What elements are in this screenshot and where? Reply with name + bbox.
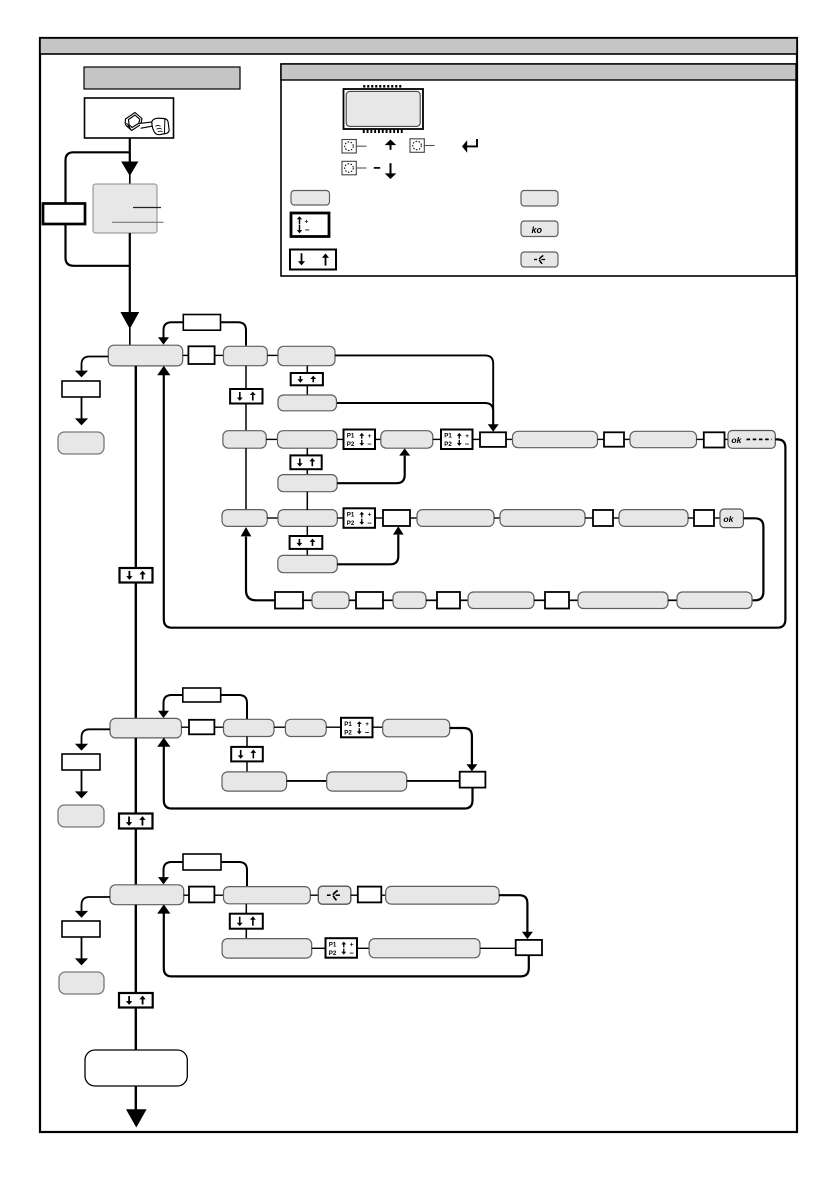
wire r4 7-8	[569, 599, 578, 601]
hand pressing key icon	[125, 113, 169, 135]
wire G6-P1P2b	[433, 438, 441, 440]
wire G2-reset s3	[310, 894, 318, 896]
gray box G2 s3	[224, 887, 311, 904]
white box Wb s2	[460, 772, 486, 788]
reset box s3	[318, 886, 351, 904]
wire r4 3-4	[383, 599, 393, 601]
wire GE-W7	[688, 517, 694, 519]
wire r4 2-3	[349, 599, 356, 601]
wire Wa-G2 s3	[214, 894, 223, 896]
s3 left arrowhead 1	[75, 911, 88, 918]
s2 left arrowhead 1	[75, 744, 88, 751]
svg-text:P2: P2	[347, 441, 355, 448]
gray box G2 s2	[224, 719, 275, 736]
wire G5-P1P2a	[337, 438, 344, 440]
row4 white 2	[356, 592, 383, 609]
svg-text:P2: P2	[344, 729, 352, 736]
column G4 to GA	[245, 448, 247, 510]
legend button right	[410, 139, 424, 153]
column to G2b s3	[245, 929, 247, 939]
row3 gray GB	[278, 510, 337, 527]
row4 white 1	[275, 592, 303, 609]
wire P1P2-G4 s2	[373, 726, 383, 728]
legend key gray left	[291, 191, 330, 206]
legend enter arrow	[467, 139, 478, 146]
state display box	[93, 184, 157, 233]
row4 white 3	[437, 592, 460, 609]
legend header bar	[281, 64, 796, 80]
svg-text:P1: P1	[347, 512, 355, 519]
wire GB-P1P2c	[337, 517, 343, 519]
column G2 s2 down	[246, 737, 248, 748]
arrowhead into state box	[121, 162, 138, 177]
legend ko button	[521, 221, 558, 237]
label box W1	[183, 315, 220, 331]
wire W2-G2	[215, 354, 224, 356]
s1 left wire from M1	[82, 357, 109, 372]
column G5 down	[306, 448, 308, 455]
svg-text:ok: ok	[731, 435, 742, 445]
wire OK2 down to row4	[743, 518, 763, 600]
svg-text:ko: ko	[532, 225, 543, 235]
gray box G2	[224, 346, 268, 365]
s1 left white box	[62, 381, 100, 397]
wire W5-GC	[410, 517, 417, 519]
trunk T1 down	[135, 583, 137, 719]
svg-text:P2: P2	[444, 441, 452, 448]
svg-text:P1: P1	[329, 941, 337, 948]
svg-text:−: −	[349, 948, 354, 957]
s2 left white box	[62, 754, 100, 770]
wire M1-W2	[183, 354, 189, 356]
ok box row2	[728, 431, 775, 449]
wire GC-GD	[494, 517, 500, 519]
wire Wc-G3 s3	[381, 894, 385, 896]
label box W3s	[183, 854, 221, 870]
trunk M3 down segment	[135, 905, 137, 994]
wire r4 5-6	[460, 599, 468, 601]
gray box Gb s3	[369, 939, 480, 958]
row3 gray GE	[619, 510, 688, 527]
s3 left white box	[62, 921, 100, 937]
arrowhead into M3 bottom	[157, 904, 170, 913]
state box line 2	[112, 221, 164, 223]
wire P1P2c-W5	[375, 517, 383, 519]
key press box	[85, 98, 174, 138]
arrowhead into Wd s3	[522, 932, 533, 939]
column GB down	[306, 526, 308, 536]
trunk T2 down	[135, 829, 137, 886]
row4 gray 5	[677, 592, 752, 609]
wire G2b-P1P2 s3	[312, 947, 326, 949]
downup box s3	[230, 914, 263, 929]
wire Gb-Wb s2	[407, 780, 460, 782]
white box Wa s3	[189, 887, 214, 903]
svg-text:−: −	[365, 728, 370, 737]
wire GA-GB	[267, 517, 278, 519]
gray box Gb s2	[327, 772, 407, 791]
gray box GBb	[278, 555, 338, 572]
svg-text:+: +	[305, 218, 309, 225]
wire G5b to G6 bottom	[337, 456, 405, 483]
wire Gb-Wd s3	[480, 947, 516, 949]
wire r4 6-7	[534, 599, 545, 601]
column to Ga s2	[246, 761, 248, 772]
row4 white 4	[545, 592, 569, 609]
wire row4 left to GA bottom	[246, 537, 275, 601]
exit arrowhead	[126, 1109, 147, 1127]
arrowhead into Wb s2	[466, 764, 477, 771]
downup box B1	[230, 389, 262, 404]
trunk wire key to state	[129, 138, 131, 163]
svg-text:−: −	[305, 226, 310, 235]
svg-text:−: −	[465, 440, 470, 449]
wire Ga-Gb s2	[287, 780, 327, 782]
wire W3s to column	[221, 862, 247, 886]
gray box G3 s3	[386, 886, 499, 904]
white box W3p	[604, 432, 624, 446]
wire G7-W3p	[598, 438, 605, 440]
feedback loop s3	[164, 913, 529, 977]
s1 left gray box	[58, 432, 104, 454]
menu box M3	[110, 885, 184, 905]
trunk downup box T2	[119, 814, 153, 829]
arrowhead into W2p	[488, 424, 499, 432]
label box W2s	[183, 688, 221, 702]
svg-text:P1: P1	[347, 433, 355, 440]
wire GBb to W5 bottom	[337, 535, 398, 565]
p1p2 box b	[441, 430, 473, 450]
gray box G3b	[278, 395, 337, 411]
state box line 1	[133, 207, 161, 209]
legend button down-left	[342, 161, 356, 175]
wire W2s to column	[221, 695, 247, 719]
row3 gray GC	[417, 510, 494, 527]
gray box G2b s3	[222, 939, 312, 959]
wire M3-Wa s3	[184, 894, 189, 896]
downup box B3	[291, 373, 323, 385]
row4 gray 4	[578, 592, 668, 609]
ok box row3	[720, 509, 743, 528]
arrowhead into M1 bottom	[157, 366, 170, 375]
row4 gray 3	[468, 592, 534, 609]
svg-text:P1: P1	[344, 721, 352, 728]
white box W5	[383, 510, 410, 526]
wire M2-Wa	[181, 726, 189, 728]
row4 gray 1	[312, 592, 349, 609]
gray box G3	[278, 346, 335, 365]
downup box s2	[231, 747, 263, 762]
wire P1P2b-W2p	[473, 438, 481, 440]
row2 gray G5	[278, 431, 338, 449]
s3 left wire from M3	[82, 897, 111, 912]
p1p2 box a	[344, 430, 376, 450]
wire G4 s2 down to Wb	[450, 728, 472, 765]
legend downup box	[290, 250, 336, 270]
white box W4p	[704, 432, 725, 447]
white box W7	[694, 510, 714, 526]
wire Wa-G2s2	[214, 726, 223, 728]
wire G2-G3	[267, 354, 278, 356]
wire W3s to M3 top	[164, 862, 184, 878]
white box W2p	[480, 432, 506, 447]
s1 left arrow 2	[81, 397, 83, 419]
s3 left arrow 2	[81, 937, 83, 959]
legend down arrow	[390, 163, 392, 174]
white box W6	[593, 510, 613, 526]
row2 gray G8	[630, 431, 697, 447]
s3 left gray box	[59, 972, 104, 994]
gray box Ga s2	[222, 772, 287, 791]
column G3 down	[306, 366, 308, 374]
downup box B4	[290, 536, 323, 549]
white box Wa s2	[189, 720, 214, 735]
wire W6-GE	[613, 517, 619, 519]
trunk M2 down segment	[135, 738, 137, 814]
p1p2 box s2	[341, 718, 373, 738]
downup box B2	[290, 455, 321, 469]
wire G8-W4p	[697, 438, 704, 440]
wire r4 8-9	[668, 599, 677, 601]
column G5b to GB	[306, 492, 308, 510]
display icon	[344, 85, 424, 133]
left loop around state box	[66, 152, 130, 265]
s2 left wire from M2	[82, 729, 111, 744]
trunk wire state to section1	[129, 233, 131, 313]
wire reset-Wc s3	[351, 894, 358, 896]
wire r4 1-2	[303, 599, 312, 601]
end rounded box	[85, 1050, 187, 1086]
svg-text:ok: ok	[723, 514, 734, 524]
wire P1P2a-G6	[375, 438, 381, 440]
arrowhead onto M3	[158, 877, 169, 884]
wire G3 to row2 entry	[335, 355, 493, 425]
trunk M1 down	[135, 366, 137, 569]
row2 gray G6	[381, 431, 433, 449]
wire W3p-G8	[624, 438, 630, 440]
legend button up-left	[342, 140, 356, 154]
legend reset button	[521, 252, 558, 267]
menu box M1	[108, 345, 182, 366]
row2 gray G7	[513, 431, 598, 447]
p1p2 box c	[344, 508, 376, 528]
wire r4 4-5	[426, 599, 437, 601]
s2 left gray box	[58, 805, 104, 827]
trunk downup box T1	[120, 568, 153, 583]
svg-text:P1: P1	[444, 433, 452, 440]
arrowhead into section1	[120, 312, 139, 329]
gray box G5b	[278, 475, 337, 492]
svg-text:P2: P2	[329, 950, 337, 957]
legend minus	[374, 167, 380, 169]
s1 left arrowhead 1	[75, 371, 88, 378]
wire W2s to M2 top	[164, 695, 183, 711]
s2 left arrow 2	[81, 770, 83, 792]
row3 gray GA	[222, 510, 267, 527]
column G2 down	[245, 366, 247, 390]
svg-text:−: −	[367, 440, 372, 449]
column B3 to G3b	[306, 385, 308, 395]
column B2 to G5b	[306, 469, 308, 475]
white box Wc s3	[358, 887, 382, 903]
arrowhead into M2 bottom	[157, 738, 170, 747]
gray box G4 s2	[383, 719, 450, 737]
row3 gray GD	[500, 510, 585, 527]
arrowhead into W5 bottom	[393, 526, 404, 534]
interrupt white box left	[43, 204, 85, 225]
page header bar	[40, 38, 797, 54]
legend panel	[281, 64, 796, 276]
trunk downup box T3	[119, 993, 153, 1008]
trunk T3 down	[135, 1008, 137, 1051]
wire G3-P1P2 s2	[326, 726, 341, 728]
feedback loop row2 to M1	[164, 374, 786, 628]
wire W4p-OK1	[725, 438, 729, 440]
gray box G3 s2	[285, 719, 326, 736]
wire W1 to M1 top	[164, 322, 184, 338]
wire GD-W6	[585, 517, 593, 519]
menu box M2	[110, 718, 181, 738]
column B1 to G4	[245, 404, 247, 432]
arrowhead onto M2	[158, 711, 169, 718]
wire W2p-G7	[506, 438, 513, 440]
row2 gray G4	[223, 431, 266, 449]
wire G2-G3 s2	[274, 726, 285, 728]
row4 gray 2	[393, 592, 426, 609]
wire G4-G5	[266, 438, 277, 440]
legend key gray right	[521, 191, 558, 207]
feedback loop s2	[164, 746, 473, 809]
white box Wd s3	[516, 940, 542, 955]
legend updown plus-minus box	[291, 213, 329, 237]
wire W7-OK2	[714, 517, 720, 519]
title block	[84, 67, 240, 89]
wire G3b to row2 entry	[337, 403, 493, 425]
legend up arrow	[390, 144, 392, 150]
svg-text:−: −	[367, 519, 372, 528]
column B4 to GBb	[306, 549, 308, 556]
column G2 s3 down	[245, 904, 247, 914]
trunk to exit arrow	[135, 1086, 137, 1112]
wire G3 s3 down to Wd	[499, 895, 527, 932]
arrowhead into GA bottom	[241, 527, 252, 536]
wire P1P2-Gb s3	[357, 947, 369, 949]
svg-text:P2: P2	[347, 520, 355, 527]
white box W2 s1	[188, 346, 214, 364]
wire W1 to G2 column	[221, 322, 247, 346]
arrowhead into G6 bottom	[399, 448, 410, 455]
arrowhead onto M1	[158, 337, 169, 344]
p1p2 box s3	[326, 938, 358, 958]
